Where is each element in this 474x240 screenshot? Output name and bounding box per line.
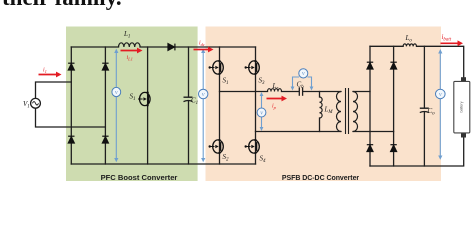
svg-text:idc: idc [199, 41, 205, 47]
svg-text:V1: V1 [23, 100, 30, 110]
svg-text:ibatt: ibatt [442, 34, 452, 42]
svg-text:iL1: iL1 [127, 55, 133, 61]
svg-text:PSFB DC-DC Converter: PSFB DC-DC Converter [282, 175, 360, 182]
svg-text:PFC Boost Converter: PFC Boost Converter [101, 173, 178, 182]
svg-text:battery: battery [460, 101, 464, 112]
svg-text:i1: i1 [43, 68, 47, 74]
